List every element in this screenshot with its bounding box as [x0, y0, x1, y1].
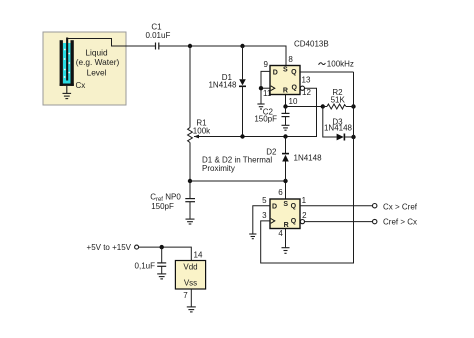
svg-text:1: 1 [302, 196, 307, 205]
wire C1 to FF1 S pin 8 [159, 46, 286, 66]
svg-text:1N4148: 1N4148 [294, 154, 323, 163]
svg-text:1N4148: 1N4148 [324, 124, 353, 133]
svg-text:Liquid: Liquid [85, 47, 108, 57]
capacitor Cref [185, 181, 195, 219]
node 0.1uF junction [160, 245, 164, 249]
svg-text:Level: Level [87, 67, 107, 77]
svg-text:Q: Q [291, 69, 297, 76]
IC power Vdd/Vss [175, 261, 205, 290]
svg-text:51K: 51K [331, 96, 346, 105]
node D1 bottom [240, 134, 244, 138]
resistor R1 potentiometer [188, 128, 199, 143]
wire Q pin 1 output [300, 205, 373, 207]
svg-text:Q: Q [291, 85, 297, 92]
ground (pin 4) [282, 248, 290, 254]
bubble Q-bar pin 2 [300, 220, 304, 224]
svg-text:7: 7 [183, 291, 188, 300]
node D3 cathode [351, 135, 355, 139]
liquid level sensor Cx [60, 38, 74, 86]
IC FF2 CD4013B half [270, 199, 300, 229]
diode D3 [323, 107, 354, 141]
ground (pin 11) [257, 104, 264, 109]
svg-text:S: S [283, 67, 288, 74]
terminal Cref>Cx [373, 219, 377, 223]
node S2 junction [283, 179, 287, 183]
svg-text:2: 2 [302, 211, 307, 220]
diode D2 [282, 137, 289, 182]
wire D pin 5 [253, 206, 270, 234]
svg-text:C1: C1 [151, 23, 162, 32]
capacitor C1 [156, 43, 159, 50]
svg-text:0,1uF: 0,1uF [135, 262, 156, 271]
wire power to Vdd [139, 247, 192, 260]
svg-text:4: 4 [278, 229, 283, 238]
svg-text:6: 6 [278, 188, 283, 197]
svg-text:5: 5 [262, 196, 267, 205]
bubble Q-bar pin 12 [300, 86, 304, 90]
svg-text:13: 13 [302, 76, 311, 85]
svg-text:1N4148: 1N4148 [208, 81, 237, 90]
svg-text:D: D [273, 70, 278, 77]
ground (pin 5) [249, 234, 256, 239]
label ~100kHz [319, 63, 326, 65]
wire D input pin 9 [261, 71, 270, 88]
svg-text:14: 14 [194, 250, 203, 259]
wire R1 to Cref node [189, 143, 191, 182]
sensor box [43, 32, 126, 105]
wire top node to R1 [189, 46, 191, 128]
svg-text:150pF: 150pF [254, 114, 277, 123]
ground (Cref) [186, 219, 195, 224]
svg-text:3: 3 [262, 211, 267, 220]
wire wiper line to Q-bar [194, 88, 317, 136]
svg-text:R: R [284, 222, 289, 229]
node pin10/C2 [283, 104, 287, 108]
svg-text:Cx: Cx [76, 81, 86, 90]
ground (C2) [282, 125, 290, 130]
capacitor 0.1uF [157, 247, 166, 274]
svg-text:100kHz: 100kHz [327, 60, 354, 69]
node pin9/11 junction [259, 86, 263, 90]
wire sensor to C1 [68, 39, 156, 47]
svg-text:+5V to +15V: +5V to +15V [87, 243, 132, 252]
svg-text:Vss: Vss [184, 279, 197, 288]
capacitor C2 [282, 107, 290, 126]
node Cref junction [188, 179, 192, 183]
svg-text:Cx > Cref: Cx > Cref [383, 202, 418, 211]
node R2 right [351, 104, 355, 108]
node R2 left [321, 104, 325, 108]
svg-text:(e.g. Water): (e.g. Water) [76, 57, 120, 67]
terminal power [135, 245, 139, 249]
svg-text:D: D [272, 204, 277, 211]
svg-text:S: S [283, 201, 288, 208]
node D2 top [283, 134, 287, 138]
ground (0.1uF) [157, 274, 166, 279]
wire clock pin 11 [261, 88, 270, 104]
svg-text:Cref > Cx: Cref > Cx [383, 218, 417, 227]
node junction C1/R1 [188, 44, 192, 48]
diode D1 [239, 46, 246, 137]
svg-text:0.01uF: 0.01uF [145, 31, 170, 40]
wire R pin 4 [285, 229, 287, 248]
svg-text:Proximity: Proximity [202, 164, 235, 173]
svg-text:100k: 100k [193, 126, 211, 135]
resistor R2 [323, 104, 354, 109]
svg-text:CD4013B: CD4013B [294, 40, 329, 49]
ground (sensor) [63, 86, 72, 99]
svg-text:Vdd: Vdd [183, 262, 197, 271]
IC FF1 CD4013B half [270, 66, 300, 95]
wire pin 7 [190, 289, 192, 307]
wire Q pin 13 [300, 71, 354, 73]
node junction D1 top [240, 44, 244, 48]
text thermal note [202, 156, 272, 174]
svg-text:R: R [283, 88, 288, 95]
svg-text:150pF: 150pF [151, 202, 174, 211]
svg-text:8: 8 [288, 55, 293, 64]
terminal Cx>Cref [373, 204, 377, 208]
svg-text:Q: Q [291, 218, 297, 225]
svg-text:Q: Q [291, 203, 297, 210]
sensor text [76, 47, 120, 77]
svg-text:9: 9 [264, 60, 269, 69]
wire Q to FF2 clock [261, 72, 354, 263]
svg-text:10: 10 [289, 97, 298, 106]
wire Cref node to FF2 S pin 6 [190, 181, 286, 199]
wire Q-bar pin 2 output [305, 221, 373, 223]
svg-text:11: 11 [263, 89, 272, 98]
wire R pin 10 [286, 95, 323, 107]
ground (pin 7) [187, 307, 196, 312]
